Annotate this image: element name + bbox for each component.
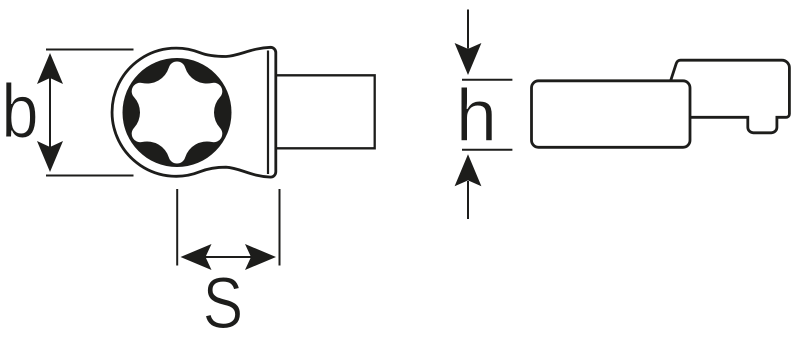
svg-text:b: b <box>1 69 38 154</box>
svg-text:h: h <box>456 74 497 157</box>
svg-text:S: S <box>203 264 243 342</box>
